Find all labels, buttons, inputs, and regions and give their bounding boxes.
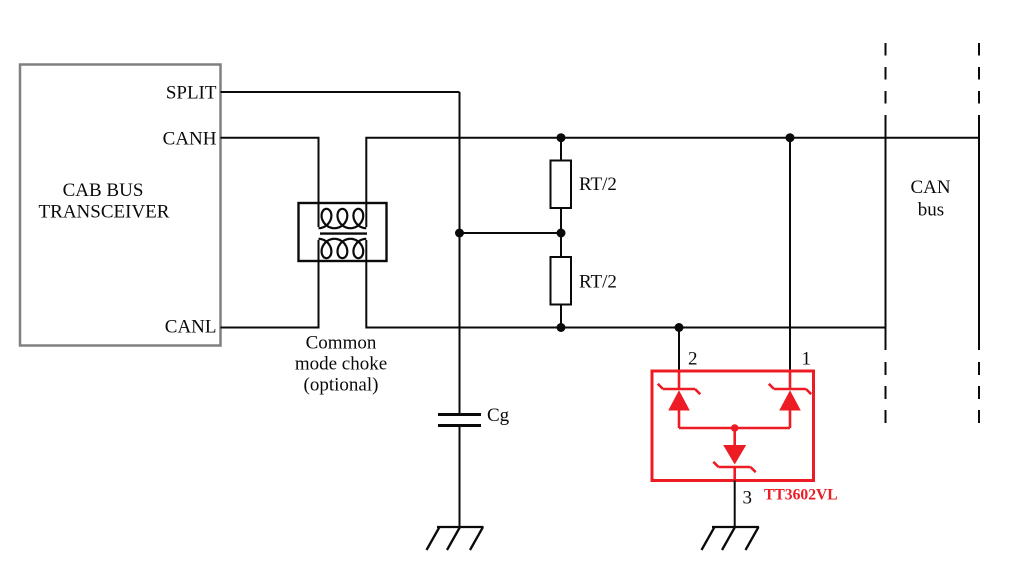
wire TVS pin1 from CANH (789, 138, 791, 371)
choke core divider line (320, 232, 367, 234)
wire split-node to RT mid (460, 232, 562, 234)
ground symbol below TVS (702, 527, 760, 550)
svg-text:2: 2 (688, 349, 698, 370)
CAN bus dashed line right (978, 43, 980, 115)
common mode choke L1 box (299, 203, 387, 261)
svg-text:RT/2: RT/2 (579, 272, 617, 293)
capacitor Cg (438, 413, 481, 416)
wire CANL from transceiver (221, 261, 319, 328)
wire SPLIT horizontal (221, 91, 460, 93)
label CAN bus (910, 177, 950, 220)
svg-text:Common: Common (306, 332, 377, 353)
choke winding wire stubs inside box (319, 203, 367, 261)
TVS diode D1a (pin2 side) (658, 371, 700, 428)
wire CANH from transceiver (221, 138, 319, 203)
svg-text:Cg: Cg (487, 405, 510, 426)
junction CANH / TVS pin1 (786, 133, 795, 142)
choke winding top coil (319, 209, 367, 228)
svg-text:SPLIT: SPLIT (166, 82, 217, 103)
resistor RT/2 upper (560, 138, 562, 161)
label common mode choke (295, 332, 387, 395)
svg-text:CANH: CANH (163, 128, 217, 149)
resistor RT/2 lower (560, 233, 562, 257)
svg-text:TRANSCEIVER: TRANSCEIVER (39, 201, 170, 222)
svg-text:CAN: CAN (910, 177, 950, 198)
junction at split vertical (455, 229, 464, 238)
svg-text:(optional): (optional) (304, 375, 379, 396)
ground symbol below Cg (427, 527, 484, 550)
TVS array D1 red box (652, 371, 814, 481)
wire TVS pin3 to ground (734, 481, 736, 528)
wire CANH bus line after choke (366, 138, 979, 203)
label CAB BUS TRANSCEIVER (39, 180, 170, 222)
red junction dot (731, 424, 739, 432)
wire SPLIT vertical down to Cg (459, 92, 461, 414)
svg-text:TT3602VL: TT3602VL (764, 487, 838, 504)
wire CANL bus line after choke (366, 261, 885, 328)
svg-text:CAB BUS: CAB BUS (63, 180, 144, 201)
wire TVS pin2 from CANL (678, 328, 680, 372)
junction CANL / RT2 (557, 323, 566, 332)
junction at RT midpoint (557, 229, 566, 238)
red wire joining anodes (679, 427, 790, 430)
wire Cg to ground (459, 426, 461, 528)
TVS diode D1b (pin1 side) (769, 371, 811, 428)
svg-text:bus: bus (918, 199, 944, 220)
svg-text:3: 3 (743, 488, 753, 509)
svg-text:1: 1 (802, 349, 812, 370)
CAN bus dashed line left (885, 43, 887, 115)
junction CANL / TVS pin2 (675, 323, 684, 332)
svg-text:CANL: CANL (165, 316, 217, 337)
junction CANH / RT1 (557, 133, 566, 142)
TVS diode D1c (pin3, center) (733, 428, 736, 445)
svg-text:RT/2: RT/2 (579, 174, 617, 195)
transceiver box U1 (20, 65, 221, 346)
choke winding bottom coil (319, 239, 367, 258)
svg-text:mode choke: mode choke (295, 354, 387, 375)
